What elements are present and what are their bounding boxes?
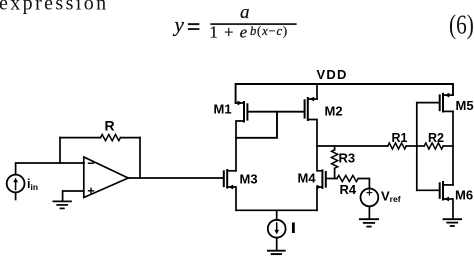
transistor M6 drain lead	[443, 184, 453, 186]
current source I arrow	[274, 223, 279, 234]
svg-text:VDD: VDD	[317, 67, 348, 82]
transistor M2 source lead + arrow	[309, 97, 317, 102]
transistor M1 source lead + arrow	[236, 101, 244, 106]
transistor M5 gate bar	[439, 95, 441, 110]
resistor R	[101, 135, 121, 141]
svg-text:R1: R1	[392, 131, 408, 145]
wire: M1-M2 gate line	[248, 111, 304, 113]
transistor M6 gate bar	[439, 183, 441, 198]
transistor M6 gate lead	[417, 189, 439, 191]
wire: I to ground	[276, 238, 278, 251]
transistor M2 drain lead	[308, 120, 317, 147]
wire: R3 bottom to node	[334, 168, 336, 178]
transistor M4 gate bar	[325, 172, 327, 187]
svg-text:a: a	[240, 2, 250, 23]
wire: feedback right vertical to output	[139, 138, 141, 178]
transistor M5 source lead + arrow	[444, 93, 453, 98]
transistor M6 source lead + arrow	[443, 197, 453, 219]
current source Iin circle	[7, 175, 25, 193]
transistor M4 gate lead	[327, 178, 335, 180]
wire: feedback left vertical	[59, 138, 61, 163]
wire: node to R4	[335, 178, 337, 180]
svg-text:R4: R4	[340, 182, 357, 197]
transistor M2 VDD drop	[316, 84, 318, 99]
op-amp minus sign	[89, 162, 94, 164]
equation y = a/(1+e^b(x-c))	[173, 2, 297, 42]
svg-text:I: I	[292, 220, 296, 235]
svg-text:M5: M5	[456, 98, 474, 113]
ground (below M6)	[444, 219, 462, 226]
svg-text:(x−c): (x−c)	[257, 24, 288, 38]
resistor R3	[332, 150, 338, 169]
transistor M4 drain lead	[317, 146, 322, 171]
svg-text:b: b	[250, 24, 256, 38]
wire: output node to R1	[317, 145, 388, 147]
resistor R2	[424, 143, 443, 149]
svg-text:M3: M3	[240, 171, 258, 186]
wire: op-amp output to M3 gate	[128, 177, 223, 179]
voltage source Vref circle	[361, 189, 379, 207]
wire: R3 top stub	[334, 146, 336, 150]
transistor M1 drain lead	[236, 121, 244, 171]
svg-text:M2: M2	[325, 103, 343, 118]
wire: tail drop to I	[276, 210, 278, 220]
transistor M2 channel bar	[307, 98, 309, 120]
svg-text:expression: expression	[0, 0, 109, 15]
op-amp U1 triangle	[84, 157, 128, 198]
transistor M6 channel bar	[442, 182, 444, 200]
wire: M5 drain to M6 drain	[452, 111, 454, 184]
wire: M5/M6 gate line vertical	[416, 103, 418, 191]
transistor M1 gate bar	[246, 104, 248, 119]
wire: tail bar	[236, 209, 317, 211]
ground (below I)	[268, 251, 285, 254]
transistor M5 gate lead	[417, 102, 439, 104]
wire: feedback top left segment	[60, 137, 101, 139]
transistor M4 channel bar	[321, 170, 323, 188]
wire: R2 to drain line	[443, 145, 453, 147]
resistor R4	[337, 175, 358, 181]
transistor M3 gate bar	[223, 171, 225, 186]
transistor M5 channel bar	[442, 94, 444, 112]
svg-text:M6: M6	[455, 188, 473, 203]
svg-text:Vref: Vref	[381, 189, 401, 205]
svg-text:(6): (6)	[449, 10, 474, 40]
wire: non-inverting input	[63, 191, 84, 201]
resistor R1	[388, 143, 406, 149]
transistor M4 source lead + arrow	[317, 185, 323, 211]
wire: Vref to ground	[368, 206, 370, 219]
transistor M3 source lead + arrow	[227, 185, 236, 211]
svg-text:R3: R3	[339, 151, 356, 166]
wire: R4 to Vref	[358, 179, 369, 189]
svg-text:M1: M1	[214, 102, 232, 117]
svg-text:R2: R2	[428, 131, 444, 145]
wire: feedback top right segment	[121, 137, 141, 139]
svg-text:R: R	[105, 117, 115, 133]
transistor M3 drain lead	[227, 170, 236, 172]
transistor M1 channel bar	[243, 102, 245, 122]
Vref plus sign	[367, 190, 372, 195]
svg-text:iin: iin	[27, 177, 38, 192]
VDD rail wire	[236, 84, 453, 103]
transistor M2 gate bar	[304, 100, 306, 117]
svg-text:M4: M4	[298, 170, 317, 185]
transistor M5 drain lead	[443, 110, 453, 112]
wire: R1 to gate line	[406, 145, 417, 147]
wire: gate line to R2	[417, 145, 424, 147]
wire: Iin bottom stub	[15, 192, 17, 199]
transistor M3 channel bar	[226, 170, 228, 188]
current source I circle	[268, 220, 286, 238]
ground (below Vref)	[360, 219, 378, 226]
wire: M1 diode connection	[236, 112, 277, 138]
svg-text:1 + e: 1 + e	[210, 23, 249, 42]
current source Iin arrow	[13, 178, 18, 190]
svg-text:y: y	[173, 13, 185, 37]
ground (op-amp + input)	[53, 201, 71, 208]
wire: Iin top to node	[16, 163, 84, 175]
op-amp plus sign	[89, 188, 94, 193]
